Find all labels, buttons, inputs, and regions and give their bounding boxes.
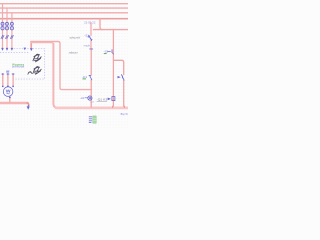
wire phase drop 2 [6,8,8,50]
wire bottom rail right [56,107,128,110]
annotation scribble 3 [28,72,33,75]
wire bottom rail left [0,102,28,105]
terminal tick motor lead 2 [7,73,9,75]
label cable W1 [7,71,10,72]
terminal legend block [89,116,96,123]
wire phase drop 3 [11,13,13,50]
label F1 green [83,78,87,80]
wire control bus y29.6 [94,29,129,31]
wire rail L2 [0,7,128,9]
terminal tick 96 [90,48,93,50]
contact chevron pole 2 [6,35,9,39]
terminal tick motor lead 3 [12,73,14,75]
contact chevron pole 1 [1,35,4,39]
wire motor bottom stub [9,98,11,102]
lamp H1 [85,96,92,100]
annotation scribble 2 [33,67,42,75]
enclosure dashed box [13,49,44,79]
svg-text:B1p W: B1p W [121,112,128,116]
breaker Q1 pole 2 [6,22,9,25]
wire motor lead 2 [7,75,9,86]
motor terminal V [7,86,8,87]
motor M1 [3,87,13,97]
wire rail N [0,18,128,20]
wire box feed stub [30,42,32,49]
svg-text:przeksztalt: przeksztalt [12,65,25,68]
wire lamp column x91.5 [90,49,92,108]
breaker Q1 pole 3 [10,22,13,25]
wire control tap [100,19,103,30]
contact chevron pole 3 [10,35,13,39]
wire neutral drop to bottom rail [53,44,57,108]
wire rail L3 [0,12,128,14]
svg-text:zalaczn: zalaczn [69,50,79,54]
arrow bottom-left rail end [27,106,30,109]
coil Q1 [112,97,115,101]
wire phase drop 1 [2,4,4,50]
wire motor lead 3 [12,75,14,86]
motor terminal U [2,86,3,87]
svg-text:mcb: mcb [84,44,91,48]
node junction coil branch [113,106,125,107]
arrow box input [30,48,33,51]
motor terminal N [9,97,10,98]
node rail end cap [27,103,29,105]
wire coil branch x113.4 [112,30,114,108]
breaker Q1 pole 1 [1,22,4,25]
arrow on box edge [24,48,27,51]
wire lower conductor of pair [31,43,53,45]
mechanical link dashed [1,25,14,27]
wire mid horizontal + contactor drop [31,42,92,90]
overload contact F1 [89,75,92,79]
arrow wire end 3 [11,48,14,51]
aux contact Q1 [121,75,124,81]
svg-text:wylacznik: wylacznik [70,36,81,40]
wire rail L1 [0,3,128,5]
arrow wire end 1 [1,48,4,51]
label S2 green [104,53,107,55]
terminal tick motor lead 1 [2,73,4,75]
motor terminal W [12,86,13,87]
wire stop column upper [90,23,92,36]
svg-text:-Q1 K3: -Q1 K3 [97,98,108,102]
cable dashed link [0,51,29,53]
svg-text:-S1: -S1 [84,33,89,37]
pushbutton S1 (stop) [88,35,92,40]
pushbutton S2 (start) [108,50,114,55]
wire holding branch x123.7 [113,60,123,107]
wire motor lead 1 [2,75,4,86]
background grid [0,0,128,128]
annotation scribble 1 [33,54,42,62]
arrow wire end 2 [6,48,9,51]
svg-text:21-S1 22: 21-S1 22 [84,20,96,24]
svg-text:-H1: -H1 [80,96,85,100]
svg-text:-S2: -S2 [104,50,109,54]
